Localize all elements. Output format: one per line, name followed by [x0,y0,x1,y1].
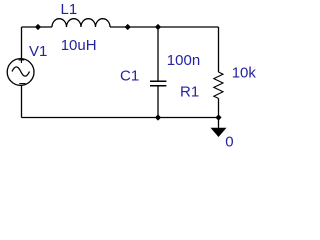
V1 plus polarity mark [19,57,25,63]
wire: V1 bottom pin [21,86,23,118]
svg-text:C1: C1 [120,67,139,84]
ground symbol (node 0) [211,128,227,137]
wire: right branch down to resistor [218,27,220,72]
wire: resistor bottom pin [218,98,220,117]
svg-text:L1: L1 [61,1,78,18]
svg-text:100n: 100n [167,52,200,69]
ground stem [218,118,220,129]
svg-text:10k: 10k [232,65,257,82]
wire: capacitor bottom stub [157,87,159,118]
wire: top rail left segment [22,26,53,28]
junction: inductor left pin [35,24,41,30]
wire: top rail right segment [110,26,219,28]
junction: inductor right pin [125,24,131,30]
junction: capacitor bottom tap [155,114,161,120]
capacitor C1 plates [150,80,166,82]
inductor L1 [52,19,110,27]
svg-text:10uH: 10uH [61,37,97,54]
voltage source V1 body [7,59,34,86]
wire: bottom rail [22,117,219,119]
voltage source V1 sine wave [12,67,30,76]
resistor R1 zigzag [214,72,223,98]
wire: capacitor top stub [157,27,159,81]
junction: capacitor top tap [155,24,161,30]
wire: V1 top pin to top rail corner [21,27,23,59]
svg-text:0: 0 [225,134,233,151]
junction: resistor/ground tap [215,114,221,120]
svg-text:V1: V1 [29,43,47,60]
svg-text:R1: R1 [180,84,199,101]
V1 minus polarity mark [19,83,25,85]
